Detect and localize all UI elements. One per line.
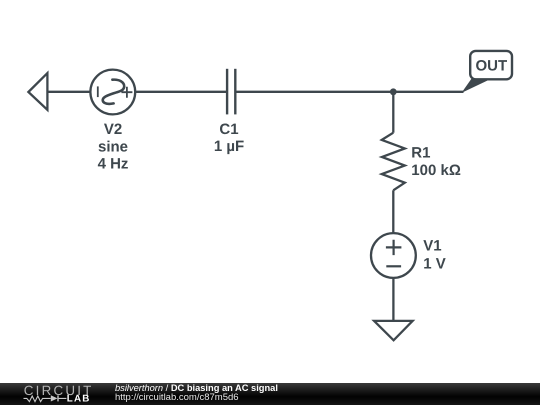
V1 plus sign: [386, 240, 402, 255]
svg-text:C1: C1: [219, 121, 238, 138]
svg-text:OUT: OUT: [475, 57, 507, 74]
wire flag to V2: [47, 91, 90, 93]
V2 plus sign: [121, 87, 132, 98]
capacitor C1 right plate: [234, 69, 236, 115]
svg-text:LAB: LAB: [67, 394, 91, 405]
footer line 1: [115, 383, 278, 393]
wire V2 to C1: [135, 91, 227, 93]
node flag (left input arrow): [28, 73, 47, 110]
wire junction to R1: [392, 92, 394, 133]
footer line 2: [115, 393, 239, 403]
source V1 circle: [371, 233, 416, 278]
V2 minus terminal bar: [97, 86, 99, 97]
ground symbol: [374, 321, 413, 340]
OUT flag pointer: [462, 79, 492, 93]
logo diode triangle: [51, 396, 58, 402]
source V2 circle: [90, 70, 135, 115]
svg-text:4 Hz: 4 Hz: [98, 156, 129, 173]
resistor R1 zigzag: [382, 133, 405, 191]
svg-text:100 kΩ: 100 kΩ: [411, 162, 461, 179]
V1 minus sign: [386, 265, 401, 267]
svg-text:1 V: 1 V: [423, 256, 446, 273]
capacitor C1 left plate: [226, 69, 228, 115]
OUT flag box: [470, 51, 512, 79]
svg-text:sine: sine: [98, 138, 128, 155]
V2 sine squiggle: [103, 80, 124, 104]
wire C1 to OUT pointer: [235, 91, 463, 93]
wire V1 to ground: [392, 278, 394, 321]
svg-text:R1: R1: [411, 145, 430, 162]
svg-text:V1: V1: [423, 238, 441, 255]
CircuitLab logo: [0, 383, 100, 405]
svg-text:V2: V2: [104, 121, 122, 138]
svg-text:1 µF: 1 µF: [214, 138, 244, 155]
logo resistor-diode glyph: [24, 396, 67, 402]
wire R1 to V1: [392, 190, 394, 233]
footer bar: [0, 383, 540, 405]
junction node dot: [390, 88, 397, 95]
